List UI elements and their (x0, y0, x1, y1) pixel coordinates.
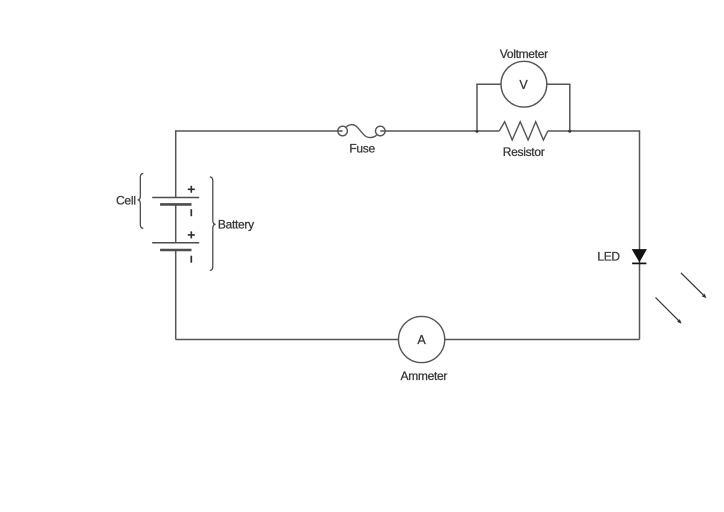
LED emission arrow lower (656, 298, 682, 324)
wire voltmeter branch right horizontal (547, 83, 571, 85)
svg-text:A: A (417, 333, 426, 347)
svg-text:Resistor: Resistor (503, 145, 545, 159)
node junction dot left of resistor (476, 130, 479, 133)
fuse element S-curve (346, 125, 377, 138)
wire voltmeter branch left vertical (476, 84, 478, 131)
battery cell 1 positive plate (152, 197, 199, 199)
cell 1 minus sign (vertical) (190, 209, 192, 216)
svg-text:V: V (519, 78, 528, 92)
cell 2 minus sign (vertical) (190, 256, 192, 263)
battery cell 2 negative plate (160, 249, 191, 252)
svg-text:Cell: Cell (116, 193, 136, 207)
LED diode triangle (632, 250, 646, 262)
wire voltmeter branch right vertical (569, 84, 571, 131)
cell 1 plus sign (188, 186, 195, 193)
battery cell 1 negative plate (160, 203, 191, 206)
wire left side lower (cell 2 to bottom corner) (175, 250, 177, 340)
node junction dot right of resistor (568, 130, 571, 133)
voltmeter circle (501, 61, 547, 107)
wire voltmeter branch left horizontal (476, 83, 501, 85)
wire fuse to resistor branch (380, 130, 499, 132)
svg-text:Battery: Battery (218, 218, 254, 232)
wire between cells (175, 204, 177, 242)
cell 2 plus sign (188, 231, 195, 238)
wire bottom-left (corner to ammeter) (176, 339, 399, 341)
ammeter circle (399, 316, 445, 362)
svg-text:Fuse: Fuse (349, 141, 375, 155)
wire top-left (battery to fuse) (176, 130, 343, 132)
svg-text:LED: LED (597, 250, 620, 264)
LED emission arrow upper (681, 273, 706, 298)
svg-text:Voltmeter: Voltmeter (500, 47, 548, 61)
fuse body circles (338, 126, 385, 136)
resistor zigzag (499, 122, 548, 140)
LED cathode bar (632, 262, 646, 264)
battery cell 2 positive plate (152, 242, 199, 244)
wire right side (top corner through LED to bottom corner) (639, 130, 641, 339)
battery brace (right curly brace) (210, 177, 216, 271)
wire left side upper (corner to cell 1) (175, 130, 177, 197)
cell brace (left curly brace) (138, 173, 144, 228)
wire bottom-right (ammeter to corner) (445, 339, 640, 341)
wire resistor to top-right corner (548, 130, 640, 132)
svg-text:Ammeter: Ammeter (401, 369, 448, 383)
